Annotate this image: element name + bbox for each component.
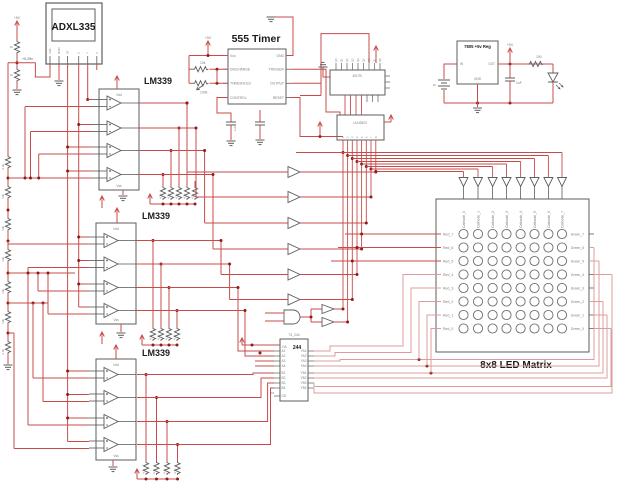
svg-text:1k: 1k — [10, 73, 14, 77]
svg-text:4.7k: 4.7k — [191, 193, 195, 199]
svg-text:7805 +5v Reg: 7805 +5v Reg — [464, 44, 491, 49]
svg-text:10k: 10k — [1, 194, 5, 199]
svg-text:Vdd: Vdd — [48, 48, 52, 54]
svg-text:ADXL335: ADXL335 — [52, 22, 96, 33]
svg-text:Green_5: Green_5 — [571, 259, 584, 263]
svg-text:Vss: Vss — [113, 454, 119, 458]
svg-text:OUT: OUT — [488, 62, 495, 66]
svg-text:10k: 10k — [1, 226, 5, 231]
svg-text:YA1: YA1 — [301, 349, 307, 353]
svg-text:YB2: YB2 — [300, 376, 306, 380]
svg-text:Green_3: Green_3 — [571, 286, 584, 290]
svg-text:Red_6: Red_6 — [443, 246, 453, 250]
svg-text:18: 18 — [271, 391, 275, 395]
svg-text:YB3: YB3 — [300, 381, 306, 385]
svg-text:Vdd: Vdd — [113, 363, 119, 367]
svg-text:4.7k: 4.7k — [167, 193, 171, 199]
svg-text:ST: ST — [66, 50, 70, 54]
svg-text:Green_0: Green_0 — [571, 327, 584, 331]
svg-text:Z: Z — [77, 52, 81, 54]
svg-text:Cathode_1: Cathode_1 — [477, 211, 481, 228]
svg-text:Y: Y — [86, 52, 90, 54]
svg-text:GND: GND — [57, 47, 61, 55]
svg-text:A1: A1 — [282, 349, 286, 353]
svg-text:YB4: YB4 — [300, 386, 306, 390]
svg-text:TRIGGER: TRIGGER — [269, 68, 285, 72]
svg-text:Cathode_5: Cathode_5 — [533, 211, 537, 228]
svg-text:A4: A4 — [282, 364, 286, 368]
svg-text:Cathode_7: Cathode_7 — [561, 211, 565, 228]
svg-text:100k: 100k — [200, 91, 208, 95]
svg-text:+5V: +5V — [205, 36, 212, 40]
svg-text:Q2: Q2 — [345, 58, 349, 62]
svg-text:LM339: LM339 — [142, 348, 170, 358]
svg-text:Q6: Q6 — [367, 58, 371, 62]
svg-text:OUTPUT: OUTPUT — [270, 82, 284, 86]
svg-text:Q0: Q0 — [334, 58, 338, 62]
svg-text:Green_1: Green_1 — [571, 313, 584, 317]
svg-text:10k: 10k — [1, 319, 5, 324]
svg-text:RESET: RESET — [273, 96, 284, 100]
svg-text:Q5: Q5 — [362, 58, 366, 62]
svg-text:+0.29v: +0.29v — [22, 57, 33, 61]
svg-text:Q8: Q8 — [378, 58, 382, 62]
svg-text:YB1: YB1 — [300, 371, 306, 375]
svg-text:LM339: LM339 — [142, 211, 170, 221]
svg-text:CONTROL: CONTROL — [230, 96, 247, 100]
svg-text:10k: 10k — [200, 61, 206, 65]
svg-text:1k: 1k — [10, 45, 14, 49]
svg-text:Red_5: Red_5 — [443, 259, 453, 263]
svg-text:Cathode_4: Cathode_4 — [519, 211, 523, 228]
svg-text:GND: GND — [276, 54, 284, 58]
svg-text:Red_3: Red_3 — [443, 286, 453, 290]
svg-text:4.7k: 4.7k — [175, 193, 179, 199]
svg-text:Vdd: Vdd — [113, 227, 119, 231]
svg-text:YA2: YA2 — [301, 354, 307, 358]
svg-text:A3: A3 — [282, 359, 286, 363]
svg-text:2.2k: 2.2k — [1, 164, 5, 170]
svg-text:Q3: Q3 — [351, 58, 355, 62]
svg-text:74_244: 74_244 — [288, 333, 299, 337]
svg-text:ULN2803: ULN2803 — [353, 121, 367, 125]
svg-text:Vcc: Vcc — [230, 54, 236, 58]
svg-text:4.7k: 4.7k — [149, 334, 153, 340]
svg-text:1uF: 1uF — [233, 126, 237, 131]
svg-text:4.7k: 4.7k — [165, 334, 169, 340]
svg-text:Cathode_0: Cathode_0 — [462, 211, 466, 228]
svg-text:Green_6: Green_6 — [571, 246, 584, 250]
svg-text:Vss: Vss — [113, 318, 119, 322]
svg-text:GND: GND — [474, 77, 482, 81]
svg-text:X: X — [95, 52, 99, 54]
svg-text:A2: A2 — [282, 354, 286, 358]
svg-text:10k: 10k — [1, 257, 5, 262]
svg-text:4.7k: 4.7k — [142, 468, 146, 474]
svg-text:GD: GD — [282, 394, 287, 398]
svg-text:Cathode_2: Cathode_2 — [491, 211, 495, 228]
svg-text:4017B: 4017B — [352, 74, 361, 78]
svg-text:Cathode_6: Cathode_6 — [547, 211, 551, 228]
svg-text:10k: 10k — [1, 289, 5, 294]
svg-text:4.7k: 4.7k — [173, 468, 177, 474]
svg-text:Cathode_3: Cathode_3 — [505, 211, 509, 228]
svg-text:555 Timer: 555 Timer — [232, 33, 281, 45]
svg-text:+5V: +5V — [14, 16, 21, 20]
svg-text:4.7k: 4.7k — [159, 193, 163, 199]
svg-text:B2: B2 — [282, 376, 286, 380]
svg-text:2.2k: 2.2k — [1, 349, 5, 355]
svg-text:YA3: YA3 — [301, 359, 307, 363]
svg-text:4.7k: 4.7k — [152, 468, 156, 474]
svg-text:LM339: LM339 — [144, 76, 172, 86]
svg-text:+5V: +5V — [507, 43, 514, 47]
svg-text:Green_2: Green_2 — [571, 300, 584, 304]
svg-text:150: 150 — [536, 55, 542, 59]
svg-text:Red_2: Red_2 — [443, 300, 453, 304]
svg-text:Red_1: Red_1 — [443, 313, 453, 317]
svg-text:YA4: YA4 — [301, 364, 307, 368]
svg-text:B4: B4 — [282, 386, 286, 390]
svg-text:4.7k: 4.7k — [163, 468, 167, 474]
svg-text:4.7k: 4.7k — [157, 334, 161, 340]
svg-text:Red_0: Red_0 — [443, 327, 453, 331]
svg-text:Q1: Q1 — [340, 58, 344, 62]
svg-text:4.7k: 4.7k — [183, 193, 187, 199]
svg-text:1uF: 1uF — [516, 81, 522, 85]
svg-text:DISCHARGE: DISCHARGE — [230, 68, 251, 72]
svg-text:Green_4: Green_4 — [571, 273, 584, 277]
svg-text:9v: 9v — [433, 83, 437, 87]
svg-text:THRESHOLD: THRESHOLD — [230, 82, 251, 86]
svg-text:B3: B3 — [282, 381, 286, 385]
svg-text:B1: B1 — [282, 371, 286, 375]
svg-text:Vdd: Vdd — [116, 93, 122, 97]
svg-text:4.7k: 4.7k — [173, 334, 177, 340]
svg-text:Red_4: Red_4 — [443, 273, 453, 277]
svg-text:Q4: Q4 — [356, 58, 360, 62]
svg-text:Red_7: Red_7 — [443, 232, 453, 236]
svg-text:Vss: Vss — [116, 184, 122, 188]
svg-text:Green_7: Green_7 — [571, 232, 584, 236]
